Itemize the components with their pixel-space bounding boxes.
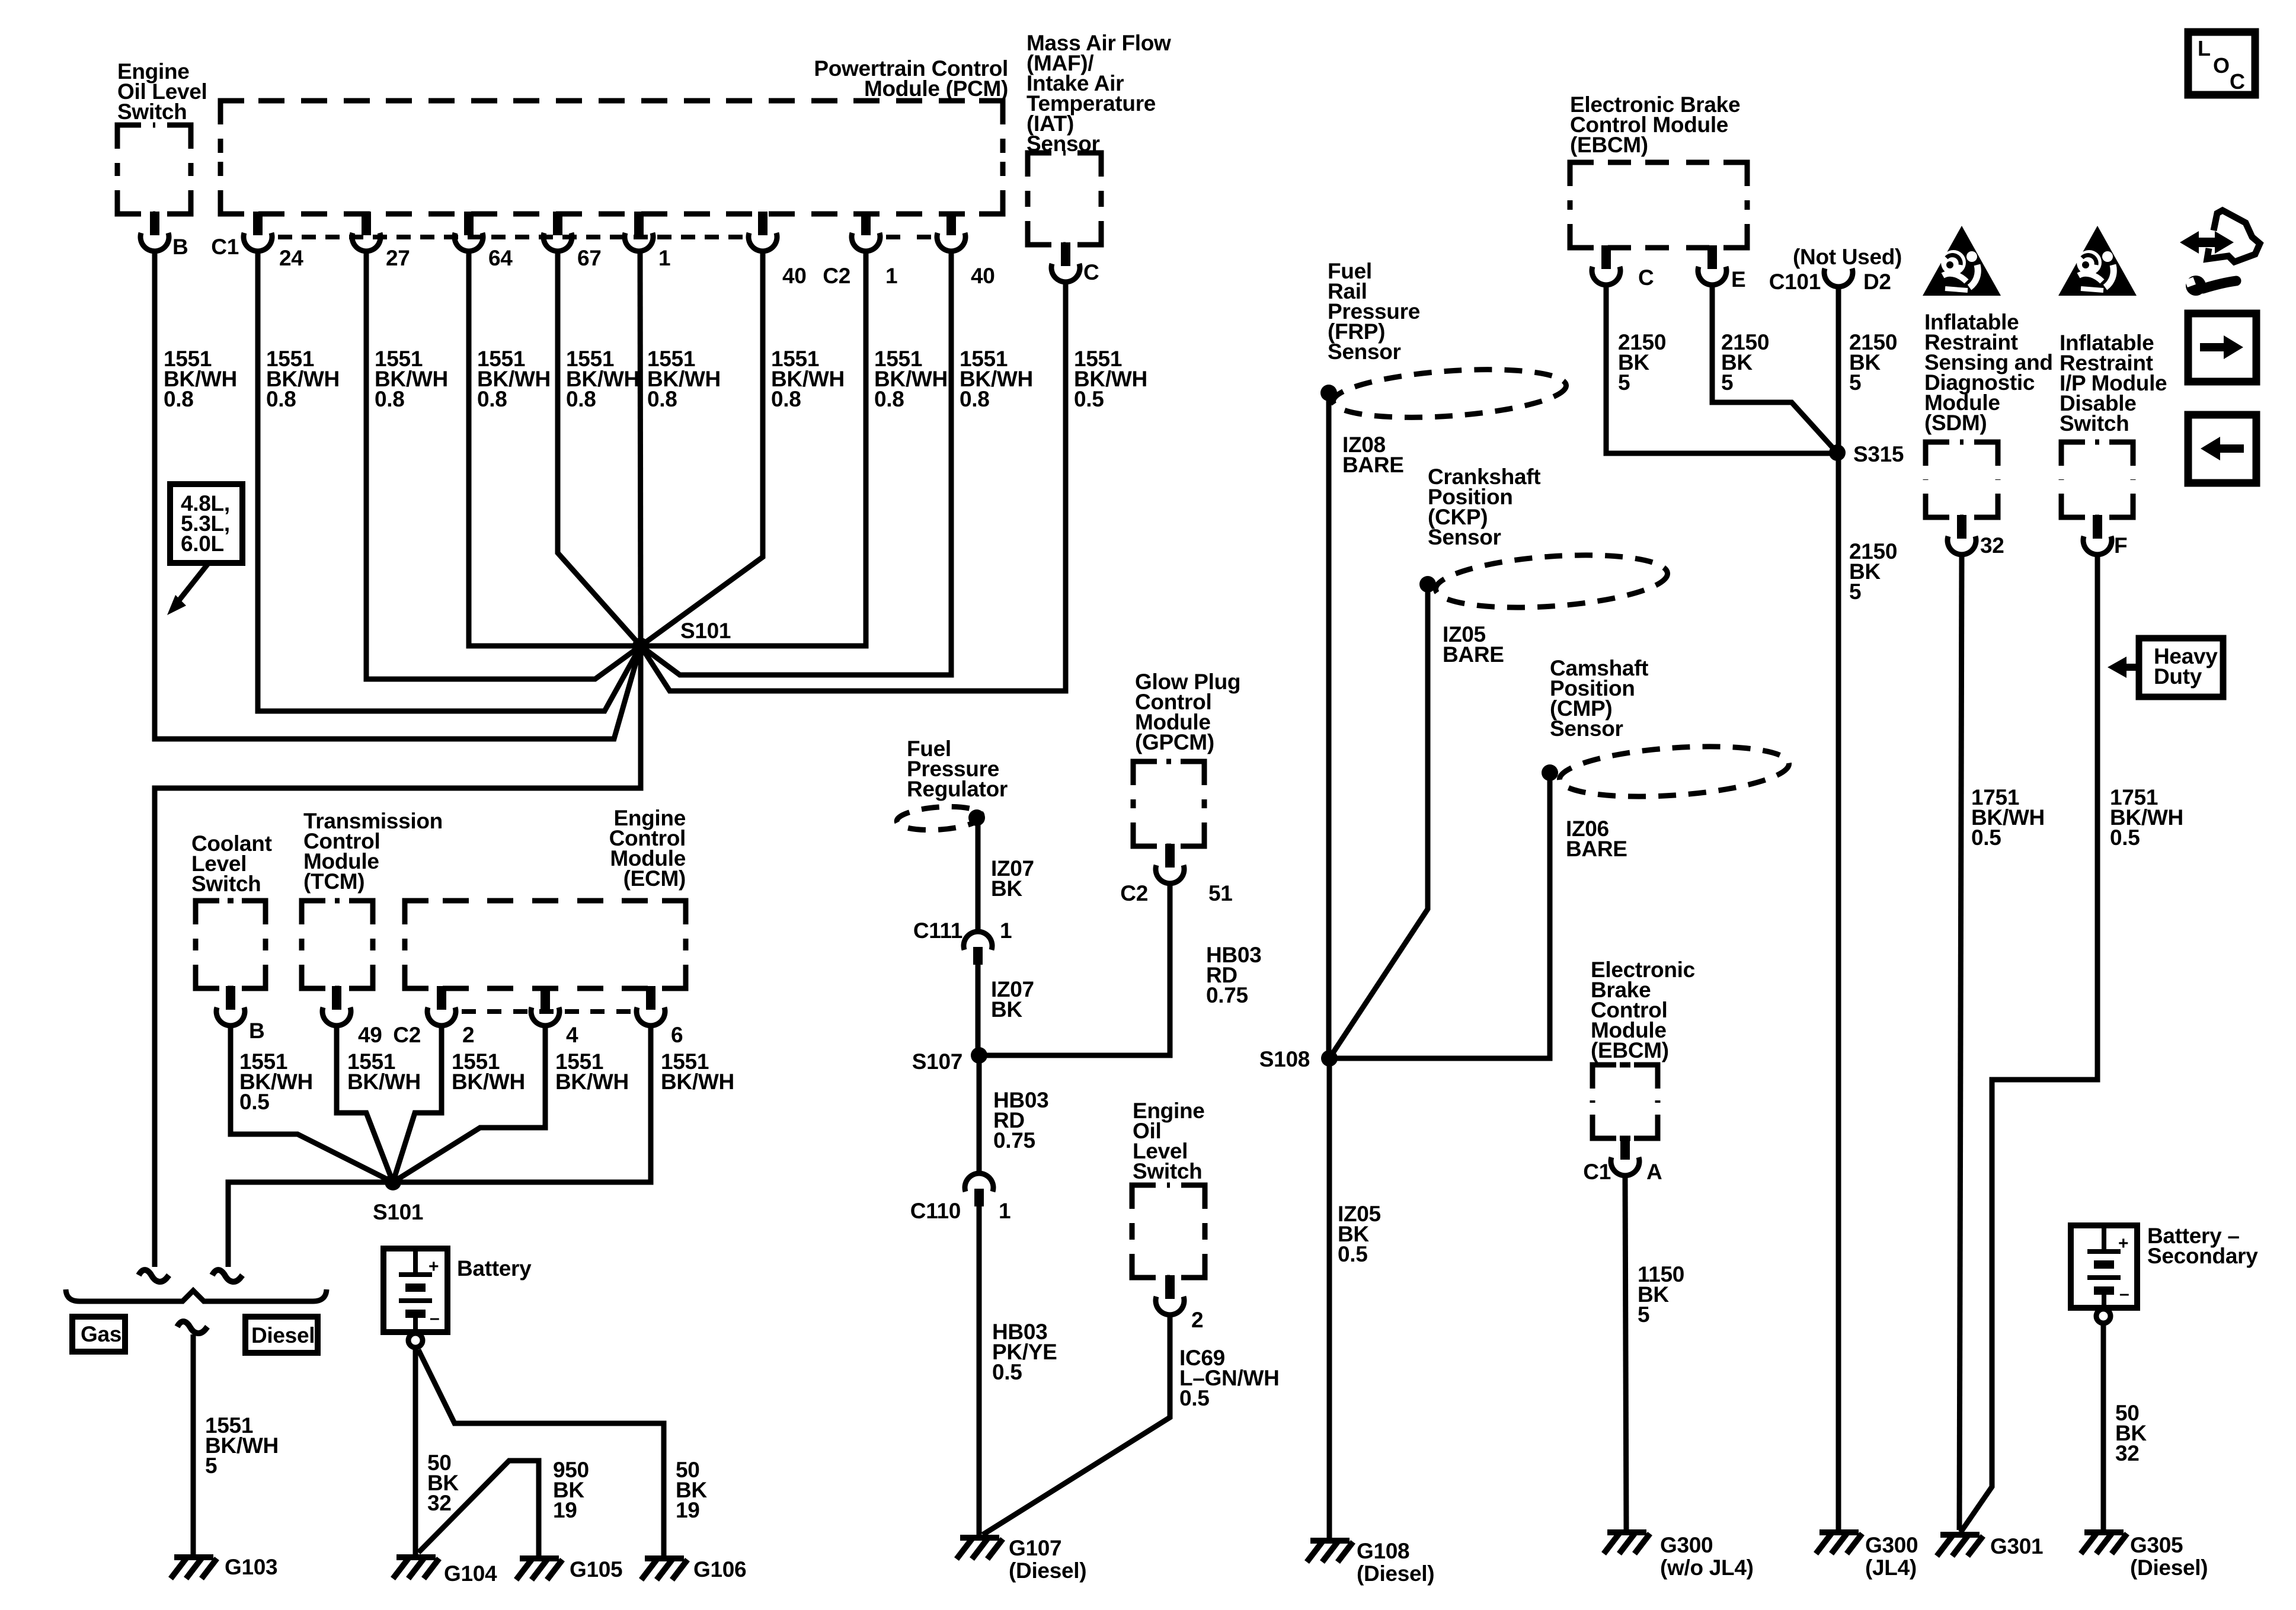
- MAF pin C label: [1083, 260, 1099, 284]
- svg-text:49: 49: [358, 1023, 382, 1047]
- svg-text:S107: S107: [912, 1049, 962, 1074]
- splice S101 (upper): [632, 638, 649, 654]
- options brace: [66, 1289, 327, 1301]
- ground G103: [171, 1557, 217, 1579]
- ground G300 (w/o JL4): [1604, 1532, 1650, 1554]
- svg-text:–: –: [2119, 1284, 2129, 1304]
- powertrain control module (PCM) dashed box: [220, 101, 1003, 214]
- svg-text:BK/WH: BK/WH: [555, 1070, 629, 1094]
- svg-text:19: 19: [553, 1498, 577, 1522]
- EBCM (dashed box): [1570, 162, 1747, 248]
- connector C2 dashed line: [886, 235, 931, 239]
- svg-text:BK/WH: BK/WH: [452, 1070, 525, 1094]
- MAF pin C: [1051, 242, 1080, 282]
- C1 connector label: [211, 235, 239, 259]
- svg-text:0.8: 0.8: [771, 387, 801, 411]
- svg-text:0.5: 0.5: [992, 1360, 1022, 1384]
- svg-text:S101: S101: [373, 1200, 423, 1224]
- wire label 1551 BK/WH 0.8 at x=1475: [874, 347, 948, 411]
- svg-text:0.8: 0.8: [164, 387, 194, 411]
- battery terminal ring: [408, 1333, 423, 1347]
- electronic brake control module (EBCM) label: [1570, 92, 1740, 157]
- pin 2 label: [1191, 1308, 1203, 1332]
- CMP sensor node dot: [1542, 764, 1558, 781]
- ground G305: [2081, 1532, 2127, 1554]
- wire C101 D2 to S315: [1836, 287, 1841, 453]
- wire label IZ05 BARE: [1443, 622, 1504, 667]
- svg-text:5: 5: [1849, 580, 1861, 604]
- PCM connector pin 1: [625, 212, 653, 251]
- wire ECM 4 to S101 lower: [393, 1026, 545, 1182]
- G106 label: [693, 1557, 746, 1582]
- svg-text:40: 40: [971, 264, 995, 288]
- svg-text:0.8: 0.8: [960, 387, 990, 411]
- svg-text:A: A: [1646, 1160, 1662, 1184]
- C110 pin 1 label: [999, 1199, 1011, 1223]
- svg-text:5: 5: [1721, 370, 1733, 395]
- svg-text:6.0L: 6.0L: [181, 532, 224, 556]
- svg-text:0.5: 0.5: [1338, 1242, 1368, 1266]
- svg-text:G300: G300: [1660, 1533, 1713, 1557]
- wire label 50 BK 19 (G106): [676, 1458, 707, 1522]
- C2 connector label: [823, 264, 850, 288]
- in-line connector C110 pin 1: [965, 1173, 993, 1206]
- wire label 2150 BK 5 (C): [1618, 330, 1666, 395]
- svg-text:–: –: [430, 1308, 439, 1328]
- wire label 1551 BK/WH 0.8 at x=632: [375, 347, 448, 411]
- EBCM 2 (dashed box): [1593, 1065, 1658, 1138]
- ground G108: [1307, 1541, 1353, 1562]
- coolant level switch label: [191, 831, 272, 896]
- C2 pin 1 label: [885, 264, 897, 288]
- svg-text:S315: S315: [1853, 442, 1904, 466]
- ECM pin 4: [531, 986, 559, 1026]
- I/P disable switch (dashed box): [2061, 442, 2133, 517]
- in-line connector C101 pin D2: [1824, 268, 1853, 287]
- wire label IZ08 BARE: [1342, 433, 1404, 477]
- C101 label: [1769, 270, 1821, 294]
- svg-text:0.8: 0.8: [566, 387, 596, 411]
- svg-text:Switch: Switch: [191, 872, 261, 896]
- svg-text:BARE: BARE: [1566, 837, 1627, 861]
- PCM connector pin 40: [749, 212, 777, 251]
- SDM pin 32: [1948, 515, 1976, 555]
- splice S108: [1321, 1050, 1338, 1067]
- wire label 1551 BK/WH 0.5 (coolant B): [239, 1049, 313, 1114]
- svg-text:(w/o JL4): (w/o JL4): [1660, 1555, 1754, 1580]
- ECM pin 4 label: [566, 1023, 578, 1047]
- svg-text:(EBCM): (EBCM): [1591, 1038, 1669, 1062]
- wire S101 down to gas branch: [155, 646, 641, 1267]
- svg-text:1: 1: [658, 246, 670, 270]
- PCM connector pin 67: [543, 212, 572, 251]
- ground G104: [393, 1557, 439, 1579]
- wire SDM 32 to G301: [1959, 555, 1962, 1530]
- svg-text:C2: C2: [393, 1023, 421, 1047]
- arrow-left reference box: [2188, 415, 2256, 483]
- svg-text:BK: BK: [991, 997, 1022, 1022]
- wire label 2150 BK 5 (D2): [1849, 330, 1897, 395]
- fuel pressure regulator (dashed ellipse): [896, 804, 983, 833]
- electronic brake control module 2 (EBCM) label: [1591, 958, 1695, 1062]
- Gas label box: [72, 1317, 125, 1352]
- wire coolant B to S101 lower: [231, 1026, 393, 1182]
- svg-text:BARE: BARE: [1342, 453, 1404, 477]
- G104 label: [444, 1561, 497, 1586]
- S101 label (lower): [373, 1200, 423, 1224]
- gas wire end hook: [139, 1270, 169, 1282]
- wire label IZ05 BK 0.5: [1338, 1202, 1381, 1266]
- svg-text:Secondary: Secondary: [2147, 1244, 2258, 1268]
- svg-text:0.8: 0.8: [375, 387, 405, 411]
- engine oil level switch label: [117, 59, 207, 124]
- GPCM C2 pin 51: [1156, 844, 1184, 884]
- svg-text:G107: G107: [1009, 1536, 1061, 1560]
- wire label IC69 L-GN/WH 0.5: [1179, 1346, 1280, 1410]
- PCM connector C2 pin 1: [852, 212, 880, 251]
- wire label 1150 BK 5: [1638, 1262, 1684, 1327]
- battery secondary terminal ring: [2096, 1309, 2110, 1323]
- ground G105: [516, 1558, 562, 1580]
- EBCM2 C1 label: [1583, 1160, 1611, 1184]
- EBCM pin E label: [1731, 267, 1745, 292]
- ground G300 (JL4): [1816, 1532, 1862, 1554]
- D2 pin label: [1863, 270, 1891, 294]
- svg-text:5: 5: [1849, 370, 1861, 395]
- mass air flow (MAF)/IAT sensor label: [1027, 31, 1171, 156]
- G300 (JL4) label: [1865, 1533, 1918, 1580]
- ground G107: [957, 1538, 1003, 1559]
- wire TCM 49 to S101 lower: [337, 1026, 393, 1182]
- svg-text:BARE: BARE: [1443, 642, 1504, 667]
- svg-text:19: 19: [676, 1498, 700, 1522]
- engine size callout arrow: [167, 563, 209, 615]
- svg-text:G305: G305: [2130, 1533, 2183, 1557]
- svg-text:E: E: [1731, 267, 1745, 292]
- C111 pin 1 label: [1000, 918, 1012, 943]
- svg-text:Regulator: Regulator: [907, 777, 1008, 801]
- svg-text:BK: BK: [991, 876, 1022, 901]
- svg-text:Switch: Switch: [117, 100, 187, 124]
- wire label HB03 RD 0.75 (GPCM): [1206, 943, 1261, 1007]
- svg-text:BK/WH: BK/WH: [347, 1070, 421, 1094]
- splice S107: [971, 1047, 987, 1064]
- branch hook below brace: [177, 1321, 207, 1333]
- G300 (w/o JL4) label: [1660, 1533, 1754, 1580]
- svg-text:+: +: [428, 1257, 439, 1276]
- coolant switch pin B: [216, 986, 245, 1026]
- wire C110 to G107: [977, 1206, 982, 1537]
- wire pin 27 to S101: [366, 251, 641, 679]
- svg-text:(SDM): (SDM): [1924, 411, 1987, 435]
- wire pin 2 to G107: [983, 1315, 1170, 1535]
- G105 label: [570, 1557, 622, 1582]
- wire label 1751 BK/WH 0.5 (I/P): [2110, 785, 2183, 850]
- pin 40 label: [782, 264, 807, 288]
- pin B label: [172, 235, 188, 259]
- svg-text:BK/WH: BK/WH: [661, 1070, 734, 1094]
- svg-text:2: 2: [1191, 1308, 1203, 1332]
- ECM (dashed box): [405, 901, 686, 988]
- SDM pin 32 label: [1980, 533, 2004, 558]
- wire label 1551 BK/WH 0.5 at x=1812: [1074, 347, 1147, 411]
- wire label 1551 BK/WH 0.8 at x=1301: [771, 347, 845, 411]
- svg-text:0.8: 0.8: [874, 387, 904, 411]
- wire ECM 2 to S101 lower: [393, 1026, 442, 1182]
- SDM (dashed box): [1926, 442, 1998, 517]
- CKP sensor (dashed ellipse): [1434, 548, 1670, 614]
- wire label 1551 BK/WH 0.8 at x=449: [266, 347, 340, 411]
- wire battery secondary to G305: [2101, 1323, 2106, 1530]
- wire label IZ07 BK (upper): [991, 856, 1034, 901]
- svg-text:C101: C101: [1769, 270, 1821, 294]
- wire label 1551 BK/WH 0.8 at x=1092: [647, 347, 721, 411]
- ECM connector dashed line: [462, 1009, 631, 1014]
- S315 label: [1853, 442, 1904, 466]
- C111 label: [913, 918, 962, 943]
- pin 40b label: [971, 264, 995, 288]
- coolant level switch (dashed box): [196, 901, 266, 988]
- wire pin 67 to S101: [558, 251, 641, 646]
- battery: [383, 1249, 447, 1332]
- arrow-right reference box: [2188, 313, 2256, 382]
- LOC reference box: [2188, 32, 2255, 95]
- svg-text:(Diesel): (Diesel): [1357, 1561, 1434, 1586]
- svg-text:+: +: [2118, 1234, 2128, 1253]
- camshaft position (CMP) sensor label: [1550, 656, 1648, 741]
- wire label 1551 BK/WH (6): [661, 1049, 734, 1094]
- svg-text:G301: G301: [1990, 1534, 2043, 1558]
- svg-text:(Diesel): (Diesel): [1009, 1558, 1086, 1583]
- battery label: [457, 1256, 532, 1281]
- wire label HB03 PK/YE 0.5: [992, 1320, 1057, 1384]
- pin 49 label: [358, 1023, 382, 1047]
- service tool icon (wrench with arrows): [2180, 210, 2260, 296]
- TCM pin 49: [322, 986, 351, 1026]
- svg-text:C: C: [1638, 265, 1654, 290]
- wire label 1551 BK/WH 0.8 at x=1619: [960, 347, 1033, 411]
- svg-text:0.75: 0.75: [993, 1128, 1035, 1153]
- wire FRP to S108 (IZ08): [1326, 393, 1332, 1058]
- svg-text:G103: G103: [225, 1555, 277, 1579]
- svg-text:5: 5: [1618, 370, 1630, 395]
- C2 connector label (ECM): [393, 1023, 421, 1047]
- diesel wire end hook: [212, 1270, 242, 1282]
- svg-text:4: 4: [566, 1023, 578, 1047]
- svg-text:(Diesel): (Diesel): [2130, 1555, 2208, 1580]
- svg-text:C2: C2: [1120, 881, 1148, 905]
- G108 label: [1357, 1539, 1434, 1586]
- svg-text:0.5: 0.5: [2110, 825, 2140, 850]
- wire S108 to G108: [1327, 1058, 1332, 1538]
- TCM (dashed box): [302, 901, 373, 988]
- wire label 1551 BK/WH 0.8 at x=276: [164, 347, 237, 411]
- airbag warning triangle (I/P switch): [2058, 226, 2137, 296]
- splice S101 (lower): [385, 1174, 401, 1190]
- EBCM pin C label: [1638, 265, 1654, 290]
- wire label 1551 BK/WH 0.8 at x=805: [477, 347, 551, 411]
- svg-text:C1: C1: [1583, 1160, 1611, 1184]
- svg-text:Sensor: Sensor: [1328, 340, 1401, 364]
- ECM pin 2 label: [462, 1023, 474, 1047]
- svg-text:0.5: 0.5: [1179, 1386, 1210, 1410]
- GPCM pin 51 label: [1208, 881, 1233, 905]
- wire label 2150 BK 5 (E): [1721, 330, 1769, 395]
- wire battery to G104: [413, 1347, 418, 1555]
- svg-text:G106: G106: [693, 1557, 746, 1582]
- airbag warning triangle (SDM): [1923, 226, 2001, 296]
- coolant pin B label: [249, 1019, 264, 1043]
- svg-text:67: 67: [577, 246, 602, 270]
- wire label 2150 BK 5 (S315 down): [1849, 539, 1897, 604]
- svg-text:Sensor: Sensor: [1550, 716, 1623, 741]
- wire label 1751 BK/WH 0.5 (SDM): [1971, 785, 2045, 850]
- svg-text:Module (PCM): Module (PCM): [864, 76, 1008, 101]
- svg-text:64: 64: [488, 246, 513, 270]
- S101 label (upper): [680, 619, 731, 643]
- svg-text:L: L: [2198, 36, 2211, 60]
- engine oil level switch (diesel) label: [1133, 1099, 1205, 1183]
- inflatable restraint SDM label: [1924, 310, 2053, 435]
- ECM pin 6 label: [671, 1023, 683, 1047]
- heavy duty callout: [2108, 638, 2223, 697]
- svg-text:C: C: [2230, 69, 2245, 94]
- engine control module (ECM) label: [609, 806, 686, 891]
- svg-text:6: 6: [671, 1023, 683, 1047]
- splice S315: [1829, 444, 1846, 461]
- G103 label: [225, 1555, 277, 1579]
- wire MAF pin C to S101: [641, 282, 1066, 691]
- pin 1 label: [658, 246, 670, 270]
- svg-text:S101: S101: [680, 619, 731, 643]
- FRP sensor (dashed ellipse): [1332, 363, 1568, 424]
- svg-text:0.5: 0.5: [1971, 825, 2001, 850]
- CMP sensor (dashed ellipse): [1558, 740, 1791, 804]
- svg-text:1: 1: [999, 1199, 1011, 1223]
- S107 label: [912, 1049, 962, 1074]
- svg-text:Switch: Switch: [1133, 1159, 1202, 1183]
- svg-text:1: 1: [1000, 918, 1012, 943]
- svg-text:0.8: 0.8: [647, 387, 677, 411]
- svg-text:G300: G300: [1865, 1533, 1918, 1557]
- connector C1 dashed line: [278, 235, 743, 239]
- svg-text:C1: C1: [211, 235, 239, 259]
- EBCM pin C: [1592, 245, 1620, 285]
- svg-text:0.8: 0.8: [266, 387, 296, 411]
- svg-text:1: 1: [885, 264, 897, 288]
- svg-text:51: 51: [1208, 881, 1233, 905]
- GPCM C2 label: [1120, 881, 1148, 905]
- svg-text:0.75: 0.75: [1206, 983, 1248, 1007]
- svg-text:G105: G105: [570, 1557, 622, 1582]
- svg-text:(Not Used): (Not Used): [1793, 245, 1902, 269]
- wire label 1551 BK/WH 5: [205, 1413, 279, 1478]
- pin 67 label: [577, 246, 602, 270]
- wire ECM 6 to S101 lower: [393, 1026, 651, 1182]
- (Not Used) label: [1793, 245, 1902, 269]
- svg-text:0.5: 0.5: [1074, 387, 1104, 411]
- C110 label: [910, 1199, 961, 1223]
- svg-text:Duty: Duty: [2154, 664, 2202, 689]
- wire label IZ06 BARE: [1566, 817, 1627, 861]
- svg-text:B: B: [249, 1019, 264, 1043]
- svg-text:0.5: 0.5: [239, 1090, 270, 1114]
- wire pin B to S101: [155, 251, 641, 739]
- svg-text:(GPCM): (GPCM): [1135, 730, 1214, 754]
- pin B (engine oil level switch): [140, 212, 169, 251]
- PCM connector C1 pin 24: [244, 212, 272, 251]
- wire label HB03 RD 0.75 (S107 down): [993, 1088, 1048, 1153]
- I/P pin F label: [2114, 533, 2127, 558]
- ECM pin 6: [637, 986, 665, 1026]
- svg-text:(TCM): (TCM): [303, 869, 364, 894]
- svg-text:C110: C110: [910, 1199, 961, 1223]
- fuel rail pressure (FRP) sensor label: [1328, 259, 1420, 364]
- wire CMP to S108 (IZ06): [1329, 773, 1550, 1058]
- wire I/P F to G301: [1961, 555, 2097, 1532]
- G107 label: [1009, 1536, 1086, 1583]
- EBCM2 pin A label: [1646, 1160, 1662, 1184]
- engine oil level switch (dashed box): [117, 125, 191, 214]
- transmission control module (TCM) label: [303, 809, 443, 894]
- svg-text:5: 5: [205, 1454, 217, 1478]
- svg-text:G104: G104: [444, 1561, 497, 1586]
- G301 label: [1990, 1534, 2043, 1558]
- svg-text:G108: G108: [1357, 1539, 1409, 1563]
- GPCM (dashed box): [1133, 761, 1204, 846]
- wire C2 pin 1 to S101: [641, 251, 866, 646]
- wire pin 1 to S101: [640, 251, 641, 646]
- svg-text:Sensor: Sensor: [1428, 525, 1501, 549]
- ECM C2 pin 2: [427, 986, 456, 1026]
- PCM connector pin 27: [352, 212, 380, 251]
- fuel pressure regulator label: [907, 737, 1008, 801]
- ground G106: [641, 1558, 687, 1580]
- FRP sensor node dot: [1320, 385, 1337, 401]
- wire GPCM 51 to S107: [979, 884, 1170, 1055]
- S108 label: [1259, 1047, 1310, 1071]
- svg-text:(JL4): (JL4): [1865, 1555, 1917, 1580]
- G305 label: [2130, 1533, 2208, 1580]
- svg-text:5: 5: [1638, 1302, 1649, 1327]
- glow plug control module (GPCM) label: [1135, 670, 1240, 754]
- wire C111 to S107: [976, 964, 981, 1055]
- EBCM 2 C1 pin A: [1611, 1136, 1639, 1176]
- wire pin 24 to S101: [258, 251, 641, 711]
- wire S315 to G300 (JL4): [1836, 453, 1841, 1530]
- svg-text:F: F: [2114, 533, 2127, 558]
- ground G301: [1937, 1535, 1983, 1556]
- svg-text:32: 32: [1980, 533, 2004, 558]
- engine oil level switch diesel (dashed box): [1132, 1185, 1205, 1278]
- svg-text:B: B: [172, 235, 188, 259]
- wire G104 to G105: [418, 1461, 539, 1556]
- PCM connector pin 64: [455, 212, 483, 251]
- svg-text:32: 32: [427, 1491, 452, 1515]
- battery - secondary: [2071, 1225, 2137, 1308]
- PCM connector pin 40b: [937, 212, 965, 251]
- wire label 1551 BK/WH (49): [347, 1049, 421, 1094]
- wire label 50 BK 32 (G104): [427, 1451, 459, 1515]
- svg-text:(ECM): (ECM): [623, 866, 686, 891]
- wire battery to G106: [418, 1350, 664, 1556]
- wire label 950 BK 19 (G105): [553, 1458, 589, 1522]
- Diesel label box: [245, 1317, 318, 1353]
- fuel pressure regulator node dot: [968, 809, 985, 826]
- wire CKP to S108 (IZ05): [1329, 584, 1428, 1058]
- wire pin 64 to S101: [469, 251, 641, 646]
- wire EBCM E to S315: [1712, 285, 1837, 453]
